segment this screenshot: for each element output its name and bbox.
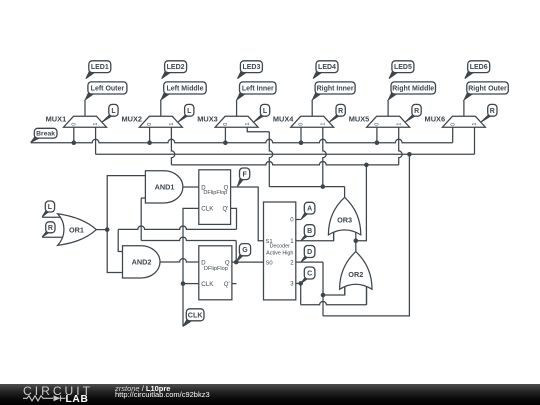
- wire bus line3 (middle pair net): [171, 162, 398, 165]
- svg-text:OR1: OR1: [69, 225, 84, 234]
- svg-text:LED1: LED1: [91, 64, 109, 71]
- junction: [72, 140, 77, 145]
- wire OR2 output to OR3 input B and line3: [355, 241, 357, 252]
- wire MUX3 input-1 jog: [247, 127, 269, 132]
- net label R (OR1 input): [42, 222, 55, 237]
- net label LED3: [238, 61, 263, 79]
- net label L (MUX3 select): [254, 104, 270, 122]
- svg-text:OR2: OR2: [348, 270, 363, 279]
- net label Right Outer: [464, 82, 508, 100]
- wire MUX output to LED net: [236, 100, 238, 117]
- junction: [407, 152, 412, 157]
- wire bus line1 (Break net): [31, 139, 453, 142]
- junction G node: [234, 260, 239, 265]
- junction: [223, 140, 228, 145]
- svg-text:C: C: [307, 271, 312, 278]
- wire MUX6 input-1 drop: [474, 127, 476, 154]
- wire U1 Q to decoder S1: [231, 187, 264, 241]
- svg-text:R: R: [414, 108, 419, 115]
- svg-text:1: 1: [472, 123, 478, 126]
- and-gate AND1: [145, 171, 183, 203]
- net label LED2: [162, 61, 187, 79]
- svg-text:D: D: [307, 249, 312, 256]
- svg-text:LED2: LED2: [167, 64, 185, 71]
- net label LED4: [313, 61, 338, 79]
- junction D net branch: [321, 293, 326, 298]
- svg-text:LED3: LED3: [242, 64, 260, 71]
- svg-text:Left Middle: Left Middle: [167, 86, 204, 93]
- wire OR1 out to AND1 input A: [107, 176, 145, 230]
- or-gate OR3: [328, 197, 360, 235]
- wire OR3 output riser: [344, 187, 346, 198]
- net label L (OR1 input): [42, 201, 55, 217]
- svg-text:0: 0: [299, 123, 305, 126]
- mux MUX6: [442, 116, 485, 127]
- mux MUX2: [139, 116, 182, 127]
- net label L (MUX1 select): [102, 104, 118, 122]
- wire MUX1 input-1 drop: [95, 127, 97, 154]
- svg-text:L: L: [263, 108, 268, 115]
- wire AND2 output to U2 D: [160, 259, 199, 262]
- svg-text:0: 0: [71, 123, 77, 126]
- svg-text:1: 1: [396, 123, 402, 126]
- svg-text:DFlipFlop: DFlipFlop: [203, 190, 227, 196]
- junction: [299, 140, 304, 145]
- wire CLK to U2 CLK: [183, 283, 199, 285]
- or-gate OR2: [340, 252, 372, 290]
- wire CLK riser: [183, 208, 199, 326]
- svg-text:MUX4: MUX4: [273, 114, 294, 123]
- d-flip-flop U1: [199, 170, 231, 225]
- net label Right Inner: [313, 82, 356, 100]
- wire MUX5 input-0 drop: [376, 127, 378, 143]
- svg-text:1: 1: [169, 123, 175, 126]
- svg-text:S0: S0: [266, 260, 273, 266]
- wire OR1 output: [96, 229, 107, 231]
- wire OR3 input legs: [333, 229, 335, 241]
- svg-text:http://circuitlab.com/c92bkz3: http://circuitlab.com/c92bkz3: [115, 390, 210, 399]
- wire AND1 output to U1 D: [183, 186, 199, 188]
- svg-text:Break: Break: [36, 131, 55, 138]
- svg-text:DFlipFlop: DFlipFlop: [204, 266, 228, 272]
- wire decoder pin1 to OR3 input A (B net): [296, 229, 334, 241]
- svg-text:MUX3: MUX3: [197, 114, 218, 123]
- svg-text:0: 0: [375, 123, 381, 126]
- net label R (MUX5 select): [405, 104, 421, 122]
- svg-text:Active High: Active High: [266, 250, 293, 256]
- wire bus line2 (outer pair net): [96, 153, 475, 155]
- wire D net to OR2 left leg: [323, 283, 345, 295]
- svg-text:Right Outer: Right Outer: [468, 86, 507, 93]
- wire U2 Q' stub: [232, 283, 237, 285]
- svg-text:OR3: OR3: [337, 216, 352, 225]
- net label R (MUX6 select): [481, 104, 497, 122]
- net label Left Middle: [161, 82, 206, 100]
- junction: [375, 140, 380, 145]
- svg-text:F: F: [242, 171, 247, 178]
- svg-text:LED6: LED6: [470, 64, 488, 71]
- svg-text:AND2: AND2: [132, 258, 152, 267]
- wire MUX output to LED net: [387, 100, 389, 117]
- net label R (MUX4 select): [330, 104, 346, 122]
- svg-text:R: R: [490, 108, 495, 115]
- mux MUX3: [215, 116, 258, 127]
- svg-text:Right Middle: Right Middle: [392, 86, 434, 93]
- net label LED1: [86, 61, 111, 79]
- wire OR1 out to AND2 input B: [107, 230, 122, 273]
- net label G: [236, 244, 250, 262]
- net label B: [301, 225, 315, 241]
- net label CLK: [183, 309, 204, 327]
- svg-text:B: B: [307, 228, 312, 235]
- net label D: [301, 246, 315, 263]
- wire OR2 input legs: [344, 283, 346, 295]
- decoder U3 (Decoder Active High): [264, 202, 296, 300]
- wire D net to bus line2: [323, 154, 409, 316]
- net label Left Outer: [85, 82, 127, 100]
- svg-text:CLK: CLK: [201, 281, 214, 288]
- svg-text:0: 0: [223, 123, 229, 126]
- svg-text:CLK: CLK: [188, 310, 204, 319]
- svg-text:L: L: [187, 108, 192, 115]
- svg-text:A: A: [307, 206, 312, 213]
- net label A: [301, 202, 315, 219]
- wire OR1 input stubs: [42, 216, 63, 218]
- wire MUX6 input-0 drop: [452, 127, 454, 143]
- and-gate AND2: [123, 246, 161, 278]
- d-flip-flop U2: [199, 246, 232, 300]
- svg-text:R: R: [338, 108, 343, 115]
- svg-text:0: 0: [450, 123, 456, 126]
- wire MUX output to LED net: [463, 100, 465, 117]
- wire U2 Q to decoder S0: [232, 261, 264, 263]
- wire MUX output to LED net: [84, 100, 86, 117]
- wire MUX4 input-1 drop: [323, 127, 326, 186]
- svg-text:MUX2: MUX2: [121, 114, 142, 123]
- svg-text:Left Outer: Left Outer: [91, 86, 125, 93]
- net label Left Inner: [237, 82, 276, 100]
- svg-text:G: G: [242, 247, 248, 254]
- junction OR2 output node: [354, 239, 359, 244]
- wire U1 Q' to AND2 input A: [231, 208, 237, 229]
- svg-text:MUX6: MUX6: [425, 114, 446, 123]
- wire MUX output to LED net: [311, 100, 313, 117]
- svg-text:MUX5: MUX5: [349, 114, 370, 123]
- svg-text:Q': Q': [224, 282, 230, 288]
- wire decoder pin0 stub: [296, 219, 301, 221]
- wire MUX2 input-0 drop: [149, 127, 151, 143]
- svg-text:Left Inner: Left Inner: [242, 86, 274, 93]
- svg-text:1: 1: [93, 123, 99, 126]
- net label L (MUX2 select): [178, 104, 194, 122]
- svg-text:LED4: LED4: [318, 64, 336, 71]
- wire bus line4 (inner pair net): [269, 186, 344, 188]
- wire MUX2 input-1 drop: [171, 127, 174, 165]
- wire decoder pin2 to OR2 input A (D net): [296, 261, 323, 263]
- svg-text:AND1: AND1: [155, 183, 175, 192]
- mux MUX1: [64, 116, 107, 127]
- CircuitLab logo: [0, 384, 540, 405]
- svg-text:LAB: LAB: [66, 394, 89, 405]
- net label LED5: [389, 61, 414, 79]
- junction OR1 output node: [105, 227, 110, 232]
- junction: [147, 140, 152, 145]
- footer bar: [0, 384, 540, 405]
- svg-text:CLK: CLK: [201, 206, 214, 213]
- wire C net to OR2 right leg: [300, 283, 302, 304]
- net label C: [301, 267, 315, 283]
- svg-text:Right Inner: Right Inner: [317, 86, 354, 93]
- mux MUX5: [367, 116, 410, 127]
- net label Right Middle: [388, 82, 435, 100]
- wire decoder pin3 stub: [296, 282, 301, 284]
- svg-text:LED5: LED5: [394, 64, 412, 71]
- svg-text:1: 1: [320, 123, 326, 126]
- svg-text:1: 1: [245, 123, 251, 126]
- net label F: [237, 168, 249, 187]
- or-gate OR1: [58, 214, 97, 246]
- junction CLK node: [181, 281, 186, 286]
- mux MUX4: [291, 116, 334, 127]
- wire MUX output to LED net: [160, 100, 162, 117]
- wire MUX4 input-0 drop: [300, 127, 302, 143]
- wire MUX5 input-1 drop: [399, 127, 402, 165]
- junction: [321, 184, 326, 189]
- svg-text:0: 0: [147, 123, 153, 126]
- junction: [364, 163, 369, 168]
- net label LED6: [465, 61, 490, 79]
- wire MUX3 input-0 drop: [224, 127, 226, 143]
- svg-text:L: L: [111, 108, 116, 115]
- junction C net: [298, 281, 303, 286]
- net label Break: [31, 128, 57, 142]
- svg-text:MUX1: MUX1: [46, 114, 67, 123]
- svg-text:R: R: [48, 225, 53, 232]
- svg-text:Q': Q': [222, 207, 228, 213]
- wire AND1 input B from U2 Q net: [141, 197, 145, 199]
- svg-text:L: L: [48, 204, 53, 211]
- svg-text:Decoder: Decoder: [270, 244, 291, 250]
- wire MUX1 input-0 drop: [73, 127, 75, 143]
